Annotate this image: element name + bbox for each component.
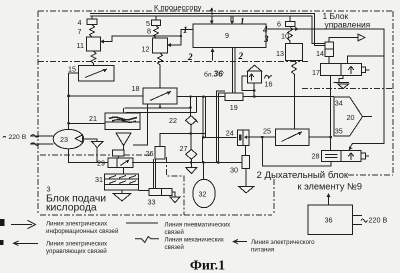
mechanical link 13-25 [292,60,297,74]
svg-text:12: 12 [142,45,150,54]
svg-text:19: 19 [230,103,238,112]
svg-text:23: 23 [60,135,68,144]
valve 29 [108,158,133,167]
svg-text:15: 15 [68,65,76,74]
svg-text:8: 8 [147,27,151,36]
junction dot [261,136,264,139]
svg-text:11: 11 [77,41,84,50]
block 5 sensor [152,20,161,25]
junction dot [189,106,192,109]
wire 16 down [253,83,255,96]
wire 9 to 11 and 12 [100,30,193,48]
wire stem box 5 [155,16,157,20]
border left (block 1 + block 3) [37,11,39,215]
wire riser pair [196,97,198,113]
wire 29 to 31 [123,167,125,173]
border block 3 bottom [40,214,272,216]
svg-text:управления: управления [325,20,371,30]
svg-text:26: 26 [146,149,154,158]
svg-text:Линия электрических: Линия электрических [46,240,108,247]
wire 22 chain vertical [190,97,192,118]
junction dot [189,132,192,135]
svg-text:Линия электрического: Линия электрического [251,239,315,246]
block 13 [286,43,303,60]
wire 22 to 27 [190,125,192,150]
block 19 [225,93,243,100]
mechanical link 4-11 [90,25,95,38]
vent below 17 [334,76,350,89]
border block 1 top [38,10,392,12]
junction dot [189,95,192,98]
symbol AC [361,219,367,222]
junction dot [253,95,256,98]
junction dot [202,136,205,139]
block 30 [242,156,250,169]
svg-text:31: 31 [95,175,103,184]
bag 32 [193,179,215,207]
ellipse 23 compressor [53,129,84,148]
wire 14 output with open arrow [329,34,365,42]
block 36 power supply [308,205,353,234]
wire 15 left vertical [69,73,79,130]
legend line pneumatic [126,222,158,224]
block 15 regulator [79,65,114,81]
wire up arrow into 9 bottom [211,48,215,60]
svg-text:2: 2 [238,51,244,61]
block 14 electro valve [325,42,334,57]
block 11 [87,37,101,51]
svg-text:27: 27 [180,144,188,153]
svg-text:информационных связей: информационных связей [46,228,119,235]
wire arrow into block 9 top [210,17,214,25]
svg-text:к элементу №9: к элементу №9 [298,182,362,192]
wire 36 up arrow to element 9 [327,193,331,205]
junction dot [159,106,161,108]
svg-text:220 В: 220 В [9,134,27,141]
wire down into 21 [122,108,124,113]
wire 32 stem single [202,137,204,162]
junction dot [180,35,182,37]
svg-text:3: 3 [263,34,269,44]
legend arrow control [14,241,39,246]
junction dot [190,161,193,164]
heater 31 [105,174,139,190]
svg-text:22: 22 [169,116,177,125]
wire 25 to node 35 [309,136,331,138]
mechanical link 12-18 [158,53,163,88]
wire main vertical 17 to 28 [330,76,332,151]
wire horizontal lower pair [126,112,197,114]
vent below 27 [186,159,197,173]
wire 24 to 25 [248,136,275,138]
wire 13 down to 25 [293,74,295,129]
legend arrow info [11,220,36,228]
border block 1 bottom [38,61,310,63]
wire double 19 left down [216,91,224,162]
wire 24 left [203,136,236,138]
vent below 31 [113,190,131,201]
svg-text:10: 10 [281,32,289,41]
svg-text:18: 18 [132,84,140,93]
wire bus to processor up arrow [210,7,214,15]
wire 18 right to 19 [177,96,225,98]
svg-text:питания: питания [251,247,274,254]
wire stem box 4 [91,16,93,19]
svg-text:7: 7 [78,27,82,36]
block 9 controller [193,24,266,48]
svg-text:21: 21 [89,114,97,123]
svg-text:24: 24 [226,129,234,138]
border block 3 right jog [167,157,185,215]
wire double 26 to 33 [153,159,155,188]
wire double arrow into block 9 top [230,17,234,25]
valve 24 [237,130,249,145]
svg-text:33: 33 [148,198,156,207]
wire 29 output [132,161,242,163]
svg-text:кислорода: кислорода [46,203,97,214]
wire 32 stem lower [202,162,204,179]
wire 31 to 33 [139,190,149,192]
svg-text:Линия пневматических: Линия пневматических [165,221,232,228]
wire 36 power stubs [353,216,363,225]
squiggle mark [265,75,273,78]
wire 17 pilot [348,56,384,63]
wire 18 to funnel [133,104,148,145]
block 12 [153,38,168,53]
wire 24 branch down to 28 [262,137,331,166]
symbol AC left [3,136,6,137]
svg-text:1: 1 [183,25,188,35]
wire bus double line [90,14,325,46]
border block 2 bottom [348,174,393,176]
svg-text:К процессору: К процессору [154,3,202,12]
mechanical link 6-13 [288,27,293,44]
valve 17 [321,64,370,76]
relief 16 house [248,65,262,83]
junction dot [329,136,332,139]
wire stem box 6 [289,16,291,22]
svg-text:28: 28 [312,152,320,161]
svg-text:1: 1 [240,17,245,27]
wire double line 9 to 19 [233,48,235,94]
junction dot [217,161,220,164]
junction dot [67,95,70,98]
wire horizontal 107.8 [124,107,190,109]
junction dot [202,95,205,98]
mechanical link 11-15 [91,51,96,65]
svg-text:связей: связей [165,229,185,236]
svg-text:20: 20 [347,113,355,122]
border block 2 left lower [273,179,275,215]
svg-text:16: 16 [265,80,273,89]
svg-text:связей: связей [165,244,185,251]
wire node бл.36 to 16 [242,76,256,92]
filter 33 [149,189,172,196]
junction dot [202,161,205,164]
svg-text:35: 35 [335,127,343,136]
valve 28 [322,150,370,161]
block 26 [155,147,165,160]
wire 14 to 17 [328,57,330,64]
svg-text:Линия электрических: Линия электрических [46,221,108,228]
wire to 21 [69,122,105,124]
svg-text:32: 32 [199,190,207,199]
check valve 27 [186,150,197,160]
svg-text:6: 6 [277,20,281,29]
svg-text:4: 4 [78,18,82,27]
vent 23 output [92,142,103,163]
wire 18 bottom [159,104,161,108]
block 21 humidifier [105,113,140,130]
block 18 regulator [143,88,177,104]
svg-text:2: 2 [187,52,193,62]
wire 220V to 23 [30,135,53,146]
svg-text:25: 25 [263,127,271,136]
block 25 regulator [275,129,309,145]
wire 20 output [362,116,372,118]
svg-text:17: 17 [312,68,320,77]
block 4 sensor [87,19,97,24]
svg-text:220 В: 220 В [369,216,388,225]
svg-text:Линия механических: Линия механических [165,237,225,244]
wire branch to 26 [160,134,205,147]
wire down into 21 pair [125,112,127,115]
wire 24 down to 30 [245,145,247,155]
mechanical link 5-12 [154,25,159,38]
svg-text:36: 36 [325,216,333,225]
svg-text:2 Дыхательный блок: 2 Дыхательный блок [257,170,349,181]
legend zigzag mechanical [135,237,159,243]
legend mark edge 2 [0,240,4,245]
border block 1 step [302,88,393,90]
legend arrow power [233,240,247,244]
wire 32 stem pair [203,97,205,138]
wire to 18 [69,95,143,97]
check valve 22 [186,116,199,125]
legend mark edge 1 [0,219,5,226]
wire 23 bottom to 29 [69,149,109,163]
svg-text:30: 30 [230,166,238,175]
svg-text:34: 34 [335,99,343,108]
block 6 sensor [286,22,296,27]
wire 9 right long control line [266,27,384,151]
svg-text:9: 9 [225,31,229,40]
svg-text:14: 14 [316,49,324,58]
junction dot [67,122,70,125]
vent below 30 [239,169,254,193]
svg-text:управляющих связей: управляющих связей [46,248,107,255]
svg-text:Фиг.1: Фиг.1 [190,259,225,273]
svg-text:29: 29 [97,159,105,168]
wire 23 output right [84,139,97,141]
wire 19 to node 34 [243,96,334,98]
border block 3 top [40,154,151,156]
svg-text:3: 3 [47,185,51,194]
block 20 mixer pentagon [334,97,363,136]
vent right of 33 [170,192,180,203]
svg-text:13: 13 [276,49,284,58]
funnel below 21 [113,133,132,158]
wire 25 top stem [293,100,295,129]
border block 1 right [392,11,394,175]
